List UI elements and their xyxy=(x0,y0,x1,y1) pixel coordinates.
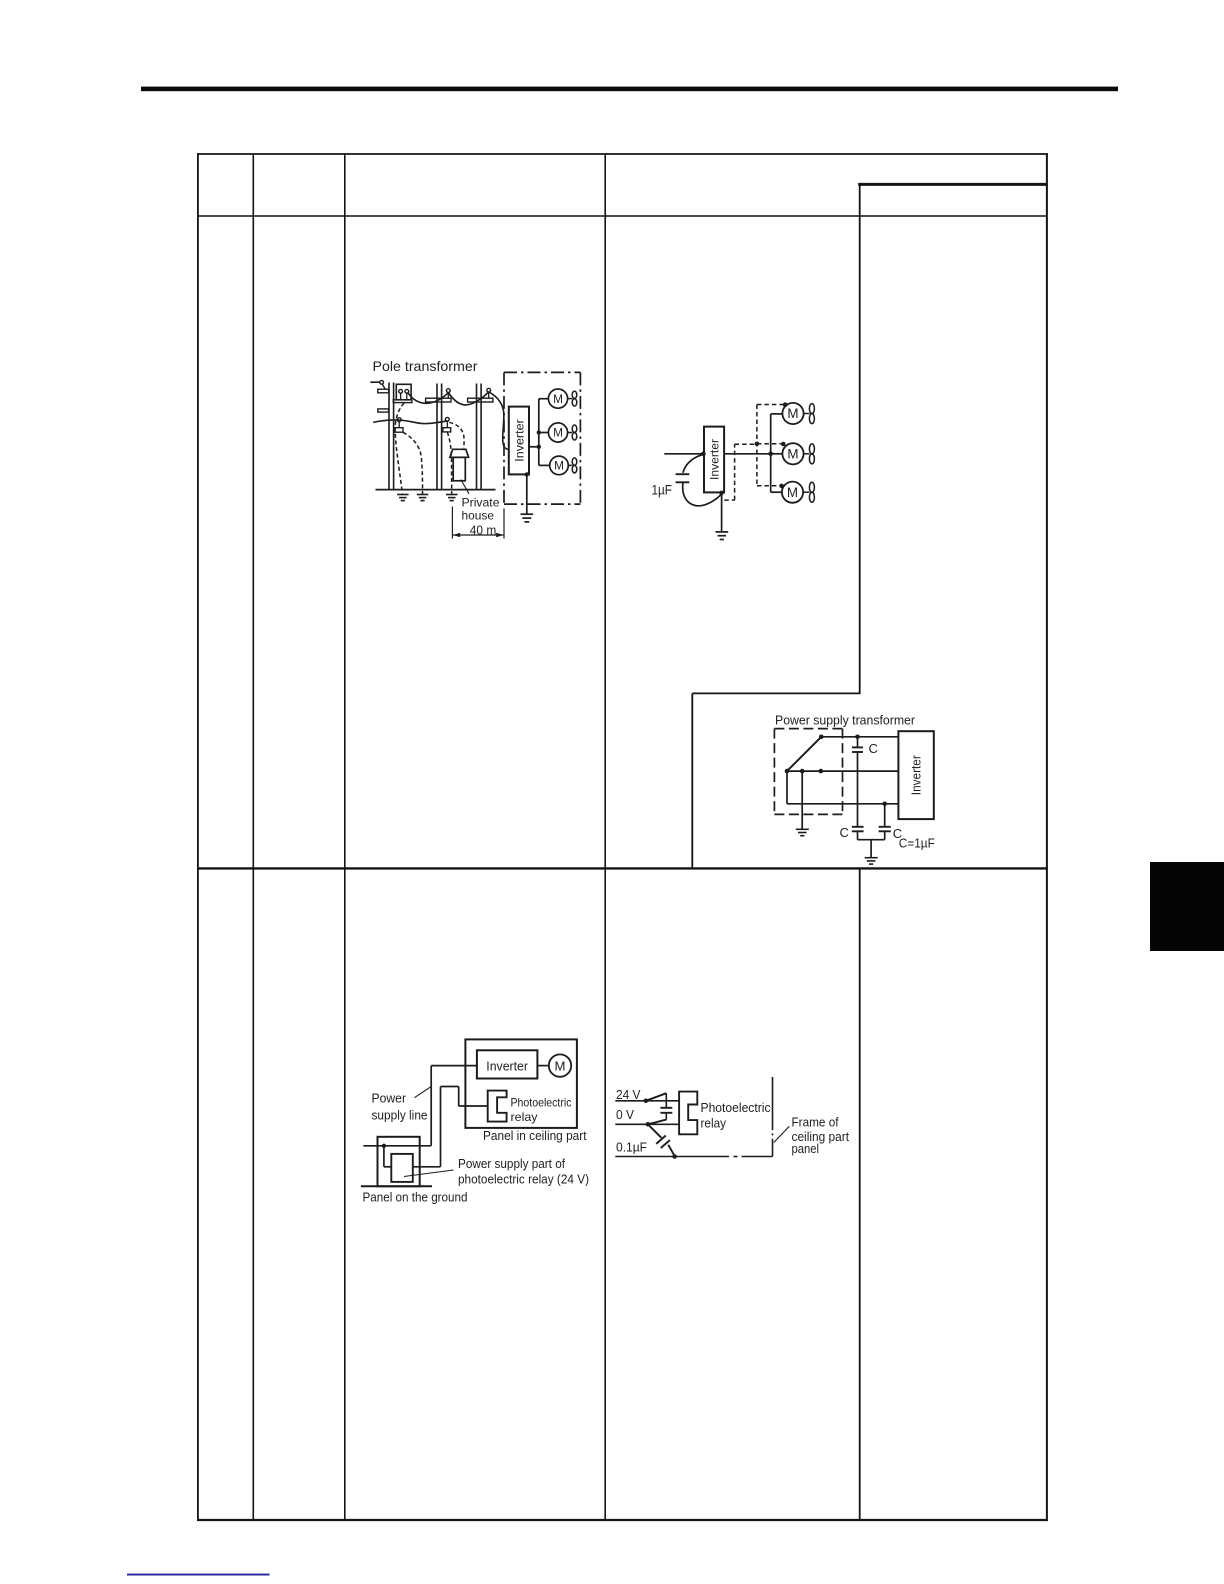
svg-text:Panel on the ground: Panel on the ground xyxy=(363,1189,468,1204)
fan of motor 1 xyxy=(568,398,573,400)
node S left xyxy=(785,769,790,774)
svg-text:M: M xyxy=(787,406,798,421)
junction node xyxy=(537,445,541,449)
secondary bracket pole 2 xyxy=(443,428,451,432)
svg-text:Photoelectric: Photoelectric xyxy=(511,1096,572,1110)
table outer top border xyxy=(197,153,1048,155)
wire phase R xyxy=(821,736,898,738)
earth node motor 1 xyxy=(783,402,788,407)
dashed earth to motor 2 xyxy=(757,443,783,445)
callout line power supply line xyxy=(414,1087,430,1098)
wire frame bottom xyxy=(615,1156,729,1158)
utility pole 2 xyxy=(436,384,438,490)
earth wire from inverter xyxy=(526,474,528,513)
junction node inverter bottom xyxy=(525,472,529,476)
svg-text:supply line: supply line xyxy=(372,1107,428,1122)
svg-text:relay: relay xyxy=(701,1116,727,1131)
pole 3 pin insulator xyxy=(487,388,491,392)
svg-text:M: M xyxy=(553,426,563,440)
wire inverter to motor xyxy=(537,1065,548,1067)
pole 3 crossarm xyxy=(468,398,493,402)
secondary insulator pole 2 xyxy=(445,417,449,421)
svg-text:Inverter: Inverter xyxy=(512,419,526,462)
ground symbol xyxy=(715,532,728,540)
junction node xyxy=(537,430,541,434)
junction node bus xyxy=(768,452,773,457)
secondary wire span xyxy=(373,420,447,424)
earth wire caps xyxy=(870,840,872,857)
inverter U3 xyxy=(898,731,933,819)
svg-text:panel: panel xyxy=(792,1141,820,1156)
capacitor between 24V and 0V xyxy=(660,1107,672,1109)
incoming service wire xyxy=(370,381,380,383)
svg-text:M: M xyxy=(554,459,564,473)
svg-text:photoelectric relay (24 V): photoelectric relay (24 V) xyxy=(458,1172,589,1187)
secondary insulator pole 1 xyxy=(397,418,401,422)
wire relay branch xyxy=(459,1105,488,1107)
wire inverter output xyxy=(529,446,539,448)
wire branch to motor 3 xyxy=(539,464,550,466)
earth node motor 3 xyxy=(779,484,784,489)
capacitor C 1uF xyxy=(676,473,690,475)
svg-text:Photoelectric: Photoelectric xyxy=(701,1100,771,1115)
svg-text:M: M xyxy=(555,1059,566,1074)
svg-text:Inverter: Inverter xyxy=(910,755,924,795)
dashed earth wire from transformer xyxy=(395,403,404,493)
junction node earth bus xyxy=(755,442,760,447)
notch vertical line xyxy=(691,693,693,868)
bushing insulator 1 xyxy=(399,389,403,393)
service insulator xyxy=(380,380,384,384)
motor bus wire xyxy=(538,399,540,466)
svg-text:0.1µF: 0.1µF xyxy=(616,1139,647,1154)
wire blade to capacitor xyxy=(665,1093,667,1107)
motor M3 xyxy=(550,456,569,475)
table bottom border xyxy=(197,1519,1048,1521)
svg-text:1µF: 1µF xyxy=(652,483,673,498)
dashed earth bus xyxy=(756,405,758,487)
fan of motor 2 xyxy=(804,453,810,455)
svg-text:Inverter: Inverter xyxy=(708,439,722,480)
wire branch to motor 2 xyxy=(539,432,549,434)
ground symbol inverter xyxy=(521,514,534,522)
switch blade xyxy=(787,737,821,771)
utility pole 3 xyxy=(476,384,478,490)
svg-text:C: C xyxy=(869,741,878,756)
black side tab xyxy=(1150,862,1224,951)
motor M2 xyxy=(782,443,803,464)
primary wire span transformer to pole 2 xyxy=(408,393,448,404)
capacitor C top xyxy=(857,737,859,747)
dashed earth to motor 3 xyxy=(757,485,782,487)
chain line to frame xyxy=(734,1156,738,1158)
dashed earth link xyxy=(735,443,757,445)
node S mid xyxy=(819,769,824,774)
private house body xyxy=(453,457,465,481)
wire power supply line xyxy=(431,1065,477,1067)
svg-text:Pole transformer: Pole transformer xyxy=(373,358,478,374)
table left border xyxy=(197,153,199,1521)
sub-header thick top line xyxy=(858,183,1048,186)
wire S down link xyxy=(786,771,788,804)
wire 0V xyxy=(615,1123,679,1125)
ground electrode 3 xyxy=(446,495,458,501)
photoelectric relay symbol xyxy=(679,1092,697,1135)
node switch top xyxy=(819,735,824,740)
junction node input xyxy=(701,452,706,457)
capacitor 0.1uF lower wire xyxy=(668,1145,674,1156)
left crossarm xyxy=(378,389,389,393)
ground symbol caps xyxy=(865,858,878,864)
table column line 2 xyxy=(344,153,346,1520)
ceiling panel enclosure xyxy=(465,1039,577,1128)
dimension extension lines xyxy=(451,507,453,539)
pole 2 pin insulator xyxy=(446,389,450,393)
inverter U2 xyxy=(704,427,724,493)
wire branch motor 1 xyxy=(771,413,783,415)
footnote rule xyxy=(127,1574,270,1576)
motor M2 xyxy=(548,423,567,442)
pole 2 crossarm xyxy=(426,398,451,402)
photoelectric relay symbol xyxy=(488,1091,507,1122)
power supply 24V box xyxy=(391,1154,413,1182)
sub-column line upper xyxy=(859,184,861,693)
wire branch motor 2 xyxy=(771,453,783,455)
secondary bracket pole 1 xyxy=(395,428,403,433)
wire input line xyxy=(664,453,704,455)
enclosure chain-line boundary xyxy=(504,372,580,504)
dashed earth wire from bracket 1 xyxy=(403,432,423,494)
pole transformer box T1 xyxy=(396,384,411,400)
svg-text:Inverter: Inverter xyxy=(486,1059,528,1073)
junction node xyxy=(382,1144,386,1148)
motor M1 xyxy=(782,403,803,424)
dashed wire to private house xyxy=(449,422,464,448)
wire node to 24V box xyxy=(383,1146,385,1167)
node 24V xyxy=(644,1099,649,1104)
transformer dashed enclosure xyxy=(774,729,842,815)
sub-column line lower xyxy=(859,868,861,1520)
top header rule xyxy=(141,87,1118,92)
insulator support strut xyxy=(382,384,385,389)
wire from T node down xyxy=(884,804,886,827)
node frame wire xyxy=(672,1154,677,1159)
dashed earth wire from inverter xyxy=(724,499,734,501)
svg-text:Power: Power xyxy=(372,1090,407,1105)
wire phase T xyxy=(787,803,899,805)
fan of motor 3 xyxy=(803,491,809,493)
wire phase S xyxy=(787,770,899,772)
svg-text:M: M xyxy=(787,485,798,500)
inverter U1 xyxy=(509,407,529,475)
table header bottom border xyxy=(197,215,1048,217)
svg-text:C=1µF: C=1µF xyxy=(899,837,935,851)
inverter U4 xyxy=(477,1050,538,1078)
ground line xyxy=(376,489,496,491)
wire to capacitor top xyxy=(683,455,703,473)
utility pole 1 xyxy=(388,383,390,490)
wire capacitor to inverter bottom xyxy=(683,483,722,506)
ground electrode 2 xyxy=(417,495,429,501)
node 0V xyxy=(646,1122,651,1127)
svg-text:C: C xyxy=(840,825,849,840)
capacitor 0.1uF plates xyxy=(656,1136,666,1144)
callout line to Private house xyxy=(461,480,469,494)
lower crossarm pole 1 xyxy=(378,409,389,412)
motor M1 xyxy=(548,389,567,408)
notch horizontal line xyxy=(692,692,860,694)
svg-text:Frame of: Frame of xyxy=(792,1115,839,1130)
wire capacitor column xyxy=(857,752,859,826)
dashed earth to motor 1 xyxy=(757,404,785,406)
svg-text:Private: Private xyxy=(462,495,500,509)
frame chain line vertical xyxy=(772,1077,774,1130)
fan of motor 1 xyxy=(804,413,810,415)
transformer base plate xyxy=(393,400,412,403)
table right border xyxy=(1046,153,1048,1521)
junction node inverter bottom xyxy=(719,491,724,496)
wire branch to motor 1 xyxy=(539,398,549,400)
svg-text:Power supply transformer: Power supply transformer xyxy=(775,712,916,727)
dashed earth wire pole 2 xyxy=(447,432,451,493)
callout line frame xyxy=(774,1126,790,1142)
private house roof xyxy=(450,449,469,457)
svg-text:0 V: 0 V xyxy=(616,1107,634,1122)
ground baseline xyxy=(361,1185,432,1187)
node earth tap xyxy=(800,769,805,774)
wire capacitor to 0V node xyxy=(665,1113,667,1120)
wire capacitor commons xyxy=(857,831,859,839)
ground panel enclosure xyxy=(378,1137,420,1187)
earth wire xyxy=(721,493,723,531)
fan of motor 3 xyxy=(568,464,572,466)
svg-text:Panel in ceiling part: Panel in ceiling part xyxy=(483,1128,587,1143)
dashed earth riser xyxy=(734,444,736,500)
drop wire from pole 3 to inverter xyxy=(489,392,509,450)
wire 24V xyxy=(615,1100,679,1102)
motor M xyxy=(549,1054,571,1076)
table column line 1 xyxy=(252,153,254,1520)
switch blade 24V xyxy=(646,1093,666,1101)
wire branch motor 3 xyxy=(771,491,782,493)
capacitor C lower-right xyxy=(879,826,891,828)
svg-text:24 V: 24 V xyxy=(616,1087,641,1102)
table column line 3 xyxy=(604,153,606,1520)
svg-text:M: M xyxy=(787,447,798,462)
node T tap xyxy=(882,802,887,807)
svg-text:house: house xyxy=(462,509,495,523)
capacitor 0.1uF diagonal wire xyxy=(648,1124,662,1138)
ground symbol transformer xyxy=(796,829,809,835)
svg-text:Power supply part of: Power supply part of xyxy=(458,1156,565,1171)
wire inverter output xyxy=(724,453,770,455)
motor bus wire xyxy=(770,414,772,492)
node capacitor tap xyxy=(855,735,860,740)
ground electrode 1 xyxy=(397,495,409,501)
primary wire span pole 2 to pole 3 xyxy=(448,392,488,405)
fan of motor 2 xyxy=(568,432,573,434)
motor M3 xyxy=(782,482,803,503)
capacitor C lower-left xyxy=(852,826,864,828)
earth wire from S xyxy=(801,771,803,829)
dimension arrow line xyxy=(453,534,503,536)
bushing insulator 2 xyxy=(405,389,409,393)
table row separator xyxy=(197,867,1048,869)
callout line to power supply part xyxy=(404,1170,454,1177)
svg-text:relay: relay xyxy=(511,1110,538,1124)
earth node motor 2 xyxy=(781,442,786,447)
svg-text:M: M xyxy=(553,392,563,406)
